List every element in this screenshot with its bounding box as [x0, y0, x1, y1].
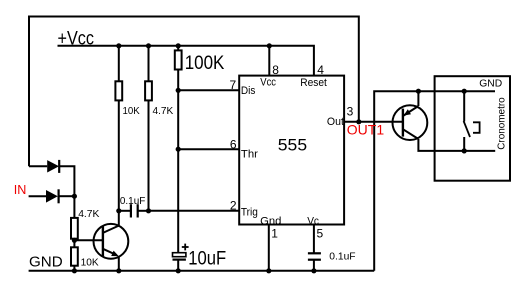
node C0.1uF left junction	[116, 208, 121, 213]
svg-text:Trig: Trig	[241, 206, 258, 218]
svg-text:OUT1: OUT1	[347, 122, 385, 138]
wire Q1 base	[74, 239, 103, 241]
svg-text:10uF: 10uF	[188, 248, 226, 269]
wire C-0.1uF(5) bottom to rail	[313, 260, 315, 271]
node rail/Q1 emitter junction	[116, 268, 121, 273]
op-amp/IC U1 555 box	[239, 76, 344, 225]
Cronometro box	[435, 76, 510, 181]
svg-text:IN: IN	[14, 182, 27, 197]
wire D2 cathode to junction	[59, 195, 75, 197]
transistor Q1 (NPN, input)	[94, 211, 129, 271]
resistor 100K	[175, 50, 225, 74]
node Dis junction	[176, 88, 181, 93]
svg-text:4.7K: 4.7K	[78, 208, 99, 220]
diode D2 (input)	[46, 189, 59, 203]
capacitor 10uF electrolytic	[173, 244, 227, 271]
wire ground return: rail up right side, across to Cronometro box	[374, 91, 495, 271]
node Q2 emitter/ground junction	[416, 89, 421, 94]
svg-text:Out: Out	[327, 116, 344, 128]
svg-text:Reset: Reset	[300, 77, 327, 89]
svg-text:100K: 100K	[185, 53, 225, 74]
capacitor 0.1uF on pin 5	[308, 250, 356, 262]
node rail/pin1 junction	[266, 268, 271, 273]
svg-text:10K: 10K	[123, 105, 140, 117]
diode D1	[47, 160, 59, 173]
wire Vcc rail to R-100K top	[177, 46, 179, 51]
transistor Q2 (PNP, output)	[393, 91, 428, 140]
pin 8 label	[260, 63, 279, 88]
resistor 10K (lower, input chain)	[71, 247, 99, 268]
pin 7 label	[230, 78, 256, 97]
svg-text:Thr: Thr	[241, 148, 258, 160]
node Trig junction	[146, 208, 151, 213]
wire diode D1 anode from frame	[29, 165, 47, 167]
pin 2 label	[230, 198, 258, 218]
pin 3 label	[327, 104, 354, 128]
wire GND rail	[29, 270, 375, 272]
node rail/input divider junction	[72, 268, 77, 273]
node Vcc/pin8 junction	[267, 43, 272, 48]
switch SW1 (push button in Cronometro box)	[464, 91, 480, 151]
svg-text:555: 555	[278, 136, 307, 155]
wire pin 2 Trig	[149, 210, 240, 212]
wire pin 5 Vc to C-0.1uF	[313, 225, 315, 254]
node switch bottom junction	[462, 148, 467, 153]
node Vcc/4.7K junction	[146, 43, 151, 48]
svg-text:+Vcc: +Vcc	[58, 29, 95, 50]
node Q1 base junction	[72, 238, 77, 243]
svg-text:Gnd: Gnd	[260, 215, 281, 227]
node diode D2 junction	[72, 194, 77, 199]
pin 5 label	[307, 215, 323, 240]
wire pin 1 Gnd to rail	[268, 225, 270, 271]
pin 4 label	[300, 63, 327, 89]
svg-text:Vcc: Vcc	[260, 76, 276, 88]
svg-text:0.1uF: 0.1uF	[120, 195, 145, 207]
wire Vcc rail to R-4.7K top	[148, 46, 150, 82]
node switch top junction	[462, 89, 467, 94]
wire pin 3 Out to node and to Q2 base	[344, 121, 403, 123]
wire Q2 collector to Cronometro lower contact	[418, 139, 495, 151]
node Thr junction	[176, 147, 181, 152]
svg-text:8: 8	[272, 63, 279, 77]
svg-text:Cronometro: Cronometro	[497, 97, 508, 150]
wire pin 8 branch from Vcc rail	[268, 46, 270, 76]
node Out junction	[356, 119, 361, 124]
svg-text:Vc: Vc	[307, 215, 319, 227]
wire IN to diode D2 anode	[29, 195, 46, 197]
svg-text:0.1uF: 0.1uF	[329, 250, 355, 262]
wire C-0.1uF left lead	[119, 210, 131, 212]
wire R-10K bottom down to C-0.1uF left node	[118, 100, 120, 210]
wire pin 7 Dis	[178, 89, 239, 91]
wire R-100K bottom down through Dis and Thr nodes to 10uF cap	[177, 70, 179, 253]
wire junction down to R-4.7K(b) top	[73, 196, 75, 218]
wire +Vcc rail with elbow down to pin 4	[58, 46, 314, 76]
wire C-0.1uF right lead	[138, 210, 149, 212]
resistor 4.7K (upper)	[145, 81, 173, 117]
pin 6 label	[230, 138, 258, 161]
wire outer loop: left frame, top frame, right drop to OUT node	[29, 17, 359, 167]
svg-text:7: 7	[230, 78, 237, 92]
node Vcc/100K junction	[176, 43, 181, 48]
svg-text:GND: GND	[29, 254, 63, 270]
node Vcc/10K junction	[116, 43, 121, 48]
resistor 10K (upper)	[115, 81, 139, 117]
wire pin 6 Thr	[178, 148, 239, 150]
resistor 4.7K (lower, input chain)	[71, 208, 99, 239]
wire Vcc rail to R-10K top	[118, 46, 120, 82]
wire R-4.7K bottom down to Trig node	[148, 100, 150, 210]
svg-text:6: 6	[230, 138, 237, 152]
svg-text:2: 2	[230, 198, 237, 212]
node rail/C0.1uF(5) junction	[311, 268, 316, 273]
svg-text:5: 5	[317, 227, 324, 241]
svg-text:1: 1	[271, 227, 278, 241]
wire R-10K(b) bottom to rail	[73, 266, 75, 271]
wire R-4.7K(b) bottom to R-10K(b) top through base node	[73, 239, 75, 248]
wire D1 cathode with elbow down to D2 node	[59, 166, 74, 196]
svg-text:GND: GND	[479, 77, 502, 89]
svg-text:4: 4	[317, 63, 324, 77]
capacitor C 0.1uF (between R10K node and Trig)	[120, 195, 145, 218]
svg-text:4.7K: 4.7K	[153, 105, 174, 117]
svg-text:Dis: Dis	[241, 85, 256, 97]
svg-text:10K: 10K	[81, 256, 99, 268]
svg-text:3: 3	[347, 104, 354, 118]
node rail/10uF junction	[176, 268, 181, 273]
pin 1 label	[260, 215, 281, 240]
